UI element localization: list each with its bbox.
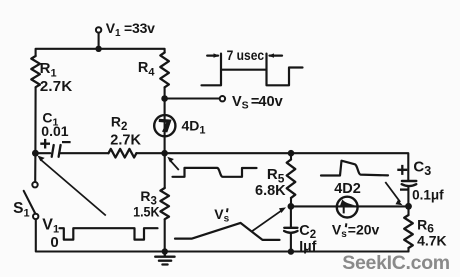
ground [155,252,174,265]
node C2 bottom [288,248,294,254]
node C1 left [32,150,39,157]
svg-text:6.8K: 6.8K [255,183,286,199]
terminal V1 [96,27,101,32]
terminal switch bottom [33,214,38,219]
svg-text:0.01: 0.01 [41,123,68,139]
dimension arrow left [207,54,218,56]
svg-text:2.7K: 2.7K [40,78,73,95]
wire Vs tap [165,97,220,99]
resistor R4 [160,53,169,88]
capacitor C2 [290,206,292,227]
waveform Vs input (7 usec pulse) [202,54,303,86]
svg-text:4D2: 4D2 [334,181,361,197]
diode 4D2 arrow glyph [340,199,355,213]
arrow to C3 node [385,182,400,202]
wire C3 to node [407,187,409,207]
terminal Vs [220,96,225,101]
svg-text:0: 0 [50,234,58,251]
wire mid rail left [35,152,50,154]
svg-text:Vs=20v: Vs=20v [332,221,380,240]
svg-text:0.1μf: 0.1μf [412,187,444,202]
svg-text:VS=40v: VS=40v [232,94,283,112]
svg-text:4.7K: 4.7K [417,232,447,248]
resistor R3 [164,153,166,188]
node V1 junction [95,46,101,52]
arrowhead to C1 node [37,156,44,162]
arrowhead to 4D1 node [167,157,174,163]
arrowhead dim right [268,53,274,57]
label C1 minus [62,141,71,143]
wire V1 supply stub [98,33,100,49]
node ground [162,248,168,254]
wire R4 to node [164,87,166,98]
waveform V1 input [60,228,158,239]
resistor R6 [407,206,409,215]
switch S1 blade [24,191,36,214]
resistor R5 [290,153,292,159]
arrowhead dim left [214,53,220,57]
label C3 plus [397,165,407,175]
resistor R2 [109,149,137,158]
svg-text:7 usec: 7 usec [227,47,265,63]
diode 4D2 [337,197,358,218]
wire left rail [34,88,36,182]
capacitor C3 [402,180,416,182]
arrow to C1 node [41,160,106,216]
wire 4D2 rail [291,205,409,207]
wire bottom rail [36,219,409,251]
node R5/C2/4D2 [288,203,295,210]
node C3/R6/4D2 [405,203,412,210]
waveform 4D2 spike [321,161,388,176]
label C1 plus [40,139,50,149]
wire top rail [36,49,165,56]
wire mid rail C1 to R2 [60,152,108,154]
resistor R1 [31,56,40,87]
arrow to C2 node [251,209,283,231]
arrowhead to C2 node [279,207,286,213]
node R2/R3/4D1 [161,150,168,157]
svg-text:SeekIC.com: SeekIC.com [342,252,450,274]
svg-text:1.5K: 1.5K [133,203,160,219]
wire mid rail right [137,153,409,180]
arrowhead to C3 node [396,200,403,205]
svg-text:Iμf: Iμf [299,238,316,254]
diode 4D1 [154,115,175,136]
capacitor C1 [52,145,61,157]
waveform Vs' sawtooth [175,223,280,240]
dimension arrow right [270,54,282,56]
wire 4D1 branch [164,99,166,154]
node R4/4D1/Vs [161,95,168,102]
arrow to 4D1 node [170,160,179,170]
diode 4D1 arrow glyph [159,119,172,133]
waveform 4D1 node [173,168,257,177]
node R5 top [288,150,295,157]
terminal switch top [32,182,37,187]
svg-text:2.7K: 2.7K [110,132,141,148]
label C3 minus [400,188,409,190]
